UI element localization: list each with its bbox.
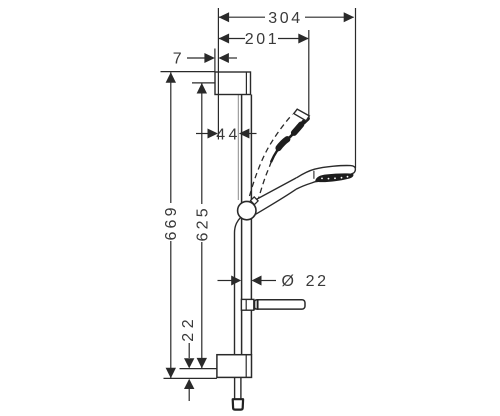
svg-text:22: 22 bbox=[180, 315, 197, 342]
svg-text:625: 625 bbox=[194, 205, 211, 241]
svg-text:44: 44 bbox=[216, 127, 241, 144]
svg-text:22: 22 bbox=[306, 273, 329, 290]
svg-text:304: 304 bbox=[268, 10, 303, 27]
svg-text:201: 201 bbox=[245, 31, 280, 48]
svg-text:7: 7 bbox=[173, 51, 185, 68]
svg-text:669: 669 bbox=[163, 204, 180, 240]
svg-text:Ø: Ø bbox=[282, 273, 297, 290]
